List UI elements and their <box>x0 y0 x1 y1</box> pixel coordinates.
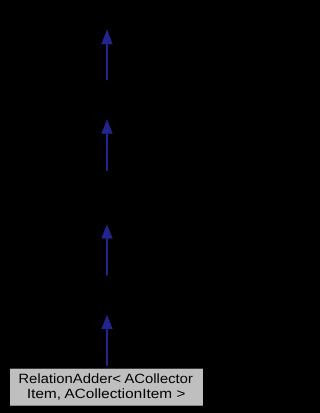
inheritance arrow 2 <box>101 119 113 171</box>
svg-text:RelationAdder< ACollector: RelationAdder< ACollector <box>18 371 193 386</box>
svg-text:Item, ACollectionItem >: Item, ACollectionItem > <box>27 386 186 401</box>
inheritance arrow 4 (bottom) <box>101 315 113 366</box>
left black bar <box>0 0 6 413</box>
inheritance arrow 1 (topmost) <box>101 29 113 80</box>
inheritance arrow 3 <box>101 224 113 275</box>
class node RelationAdder (current class, grey fill) <box>10 368 204 406</box>
top black bar <box>0 0 213 25</box>
